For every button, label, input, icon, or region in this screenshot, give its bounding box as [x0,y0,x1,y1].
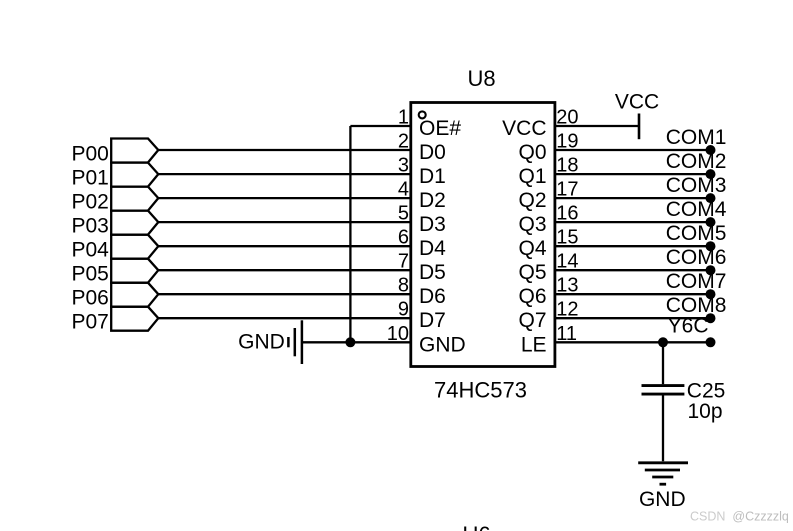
svg-text:17: 17 [556,179,578,201]
svg-text:18: 18 [556,155,578,177]
svg-text:COM6: COM6 [666,246,727,269]
svg-text:D6: D6 [419,285,446,308]
svg-text:12: 12 [556,299,578,321]
svg-text:P06: P06 [72,287,109,310]
svg-text:7: 7 [398,251,409,273]
svg-text:16: 16 [556,203,578,225]
svg-text:14: 14 [556,251,578,273]
svg-text:11: 11 [556,323,577,345]
svg-text:COM7: COM7 [666,270,727,293]
svg-text:P00: P00 [72,142,109,165]
svg-text:D4: D4 [419,237,446,260]
svg-text:9: 9 [398,299,409,321]
svg-text:D0: D0 [419,141,446,164]
svg-text:P02: P02 [72,191,109,214]
svg-text:Q5: Q5 [518,261,546,284]
svg-text:P05: P05 [72,263,109,286]
svg-text:D1: D1 [419,165,446,188]
svg-text:3: 3 [398,155,409,177]
svg-text:P01: P01 [72,167,109,190]
svg-text:GND: GND [419,333,466,356]
svg-text:P04: P04 [72,239,110,262]
svg-text:D3: D3 [419,213,446,236]
svg-text:COM1: COM1 [666,126,727,149]
svg-text:15: 15 [556,227,578,249]
svg-text:GND: GND [639,488,686,511]
svg-text:10: 10 [387,323,409,345]
svg-text:13: 13 [556,275,578,297]
svg-text:4: 4 [398,179,409,201]
svg-text:Q0: Q0 [518,141,546,164]
svg-text:1: 1 [398,107,409,129]
svg-text:U6: U6 [463,522,491,531]
svg-text:OE#: OE# [419,117,461,140]
svg-text:20: 20 [556,107,578,129]
svg-text:COM2: COM2 [666,150,727,173]
svg-text:Q3: Q3 [518,213,546,236]
svg-text:Q7: Q7 [518,309,546,332]
svg-text:COM5: COM5 [666,222,727,245]
svg-text:VCC: VCC [502,117,546,140]
svg-text:D5: D5 [419,261,446,284]
svg-text:COM4: COM4 [666,198,727,221]
svg-text:CSDN @Czzzzlq: CSDN @Czzzzlq [690,510,789,524]
svg-text:COM3: COM3 [666,174,727,197]
svg-text:U8: U8 [468,66,496,91]
svg-text:P07: P07 [72,311,109,334]
svg-text:Q6: Q6 [518,285,546,308]
svg-text:8: 8 [398,275,409,297]
svg-text:5: 5 [398,203,409,225]
svg-text:D7: D7 [419,309,446,332]
svg-text:GND: GND [238,331,285,354]
svg-text:6: 6 [398,227,409,249]
svg-text:LE: LE [521,333,547,356]
svg-text:D2: D2 [419,189,446,212]
svg-text:Q2: Q2 [518,189,546,212]
svg-text:Q1: Q1 [518,165,546,188]
svg-text:Y6C: Y6C [668,315,709,338]
svg-text:Q4: Q4 [518,237,546,260]
svg-text:19: 19 [556,131,578,153]
svg-text:2: 2 [398,131,409,153]
svg-text:VCC: VCC [615,90,659,113]
svg-text:P03: P03 [72,215,109,238]
svg-text:74HC573: 74HC573 [434,377,527,402]
svg-text:10p: 10p [688,400,723,423]
